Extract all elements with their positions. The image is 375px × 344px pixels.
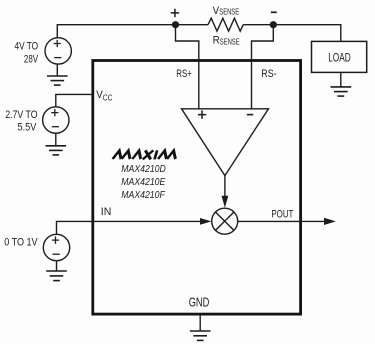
wire GND pin to ground xyxy=(199,315,201,331)
svg-text:POUT: POUT xyxy=(271,208,293,220)
svg-text:MAX4210D: MAX4210D xyxy=(121,164,166,175)
label RSENSE xyxy=(213,35,240,47)
op-amp U1a xyxy=(182,109,269,176)
value label 4V TO 28V xyxy=(15,41,39,66)
svg-text:28V: 28V xyxy=(24,54,39,66)
svg-text:GND: GND xyxy=(189,296,210,310)
label MAX4210D xyxy=(121,164,166,201)
wire node A to resistor xyxy=(176,24,209,26)
svg-text:MAX4210E: MAX4210E xyxy=(121,177,165,188)
ground (LOAD) xyxy=(331,87,352,96)
pin label VCC xyxy=(96,89,112,102)
node B (- sense terminal junction) xyxy=(270,21,277,28)
svg-text:MAX4210F: MAX4210F xyxy=(121,190,165,201)
pin label POUT xyxy=(271,208,293,220)
wire resistor to node B xyxy=(243,24,273,26)
pin label RS+ xyxy=(176,68,192,80)
value label 0 TO 1V xyxy=(4,237,38,249)
wire V2 to VCC pin xyxy=(56,94,92,106)
wire V1 top to node A xyxy=(57,25,172,39)
svg-text:LOAD: LOAD xyxy=(328,52,351,64)
svg-text:IN: IN xyxy=(101,206,112,218)
node A (+ sense terminal junction) xyxy=(172,21,179,28)
multiplier X1 xyxy=(212,208,238,234)
ground (V2) xyxy=(46,146,67,155)
label + (sense polarity) xyxy=(171,9,179,17)
pin label RS- xyxy=(261,68,277,80)
wire V2 to ground xyxy=(55,133,57,146)
wire LOAD to ground xyxy=(340,73,342,87)
wire V1 to ground xyxy=(56,64,58,76)
voltage source V2 xyxy=(43,107,69,133)
svg-text:RS-: RS- xyxy=(261,68,277,80)
pin label IN xyxy=(101,206,112,218)
wire op-amp output to multiplier (arrow) xyxy=(222,176,229,208)
svg-text:SENSE: SENSE xyxy=(220,37,240,46)
wire node B to LOAD xyxy=(273,25,341,42)
wire V3 to ground xyxy=(56,261,58,271)
svg-text:CC: CC xyxy=(103,94,113,103)
ground (V1) xyxy=(47,76,68,85)
svg-text:R: R xyxy=(213,35,220,47)
svg-text:4V TO: 4V TO xyxy=(15,41,39,53)
ground (V3) xyxy=(46,271,67,281)
svg-text:0 TO 1V: 0 TO 1V xyxy=(4,237,38,249)
MAXIM logo xyxy=(113,150,178,159)
voltage source V1 xyxy=(45,38,71,64)
voltage source V3 xyxy=(43,234,69,260)
value label 2.7V TO 5.5V xyxy=(5,109,38,133)
label VSENSE xyxy=(213,5,240,17)
ground (GND pin) xyxy=(190,331,211,340)
label LOAD xyxy=(328,52,351,64)
pin label GND xyxy=(189,296,210,310)
wire multiplier to POUT (arrow) xyxy=(238,218,336,225)
wire node B to RS- pin xyxy=(252,25,274,109)
label - (sense polarity) xyxy=(271,11,277,13)
svg-text:2.7V TO: 2.7V TO xyxy=(5,109,38,121)
IC U1 MAX4210 body xyxy=(93,61,301,315)
svg-text:SENSE: SENSE xyxy=(219,8,239,17)
svg-text:5.5V: 5.5V xyxy=(18,122,37,134)
wire node A to RS+ pin xyxy=(176,25,199,109)
svg-text:RS+: RS+ xyxy=(176,68,192,80)
LOAD box xyxy=(312,41,367,72)
wire V3 to IN pin and multiplier (arrow) xyxy=(57,218,212,234)
resistor RSENSE xyxy=(208,18,243,31)
